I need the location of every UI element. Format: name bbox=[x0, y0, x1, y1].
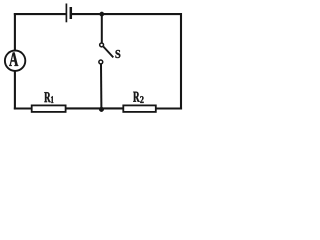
wire switch branch lower bbox=[100, 64, 102, 109]
label subscript 1 of R1 bbox=[51, 96, 53, 103]
wire right segment bbox=[180, 13, 182, 110]
wire top-right segment bbox=[72, 13, 182, 15]
label subscript 2 of R2 bbox=[140, 96, 143, 103]
battery long plate (positive) bbox=[65, 4, 67, 23]
resistor R1 box bbox=[32, 105, 66, 112]
battery short plate (negative) bbox=[70, 7, 73, 19]
wire bottom-right segment bbox=[156, 107, 183, 109]
resistor R2 box bbox=[123, 105, 156, 112]
wire bottom-left segment bbox=[14, 107, 32, 109]
switch S blade bbox=[103, 47, 113, 58]
node junction dot top bbox=[100, 12, 104, 16]
wire left upper segment bbox=[14, 13, 16, 50]
switch S top contact circle bbox=[100, 43, 104, 47]
ammeter U1 circle bbox=[5, 51, 25, 71]
wire switch branch upper bbox=[101, 13, 103, 42]
switch S bottom contact circle bbox=[99, 60, 103, 64]
wire top-left segment bbox=[14, 13, 66, 15]
wire bottom-middle segment bbox=[66, 107, 124, 109]
wire left lower segment bbox=[14, 71, 16, 109]
ammeter label A bbox=[9, 53, 18, 66]
label S bbox=[115, 50, 120, 58]
label R of R1 bbox=[44, 92, 50, 102]
node junction dot bottom bbox=[99, 107, 104, 112]
label R of R2 bbox=[133, 92, 139, 102]
